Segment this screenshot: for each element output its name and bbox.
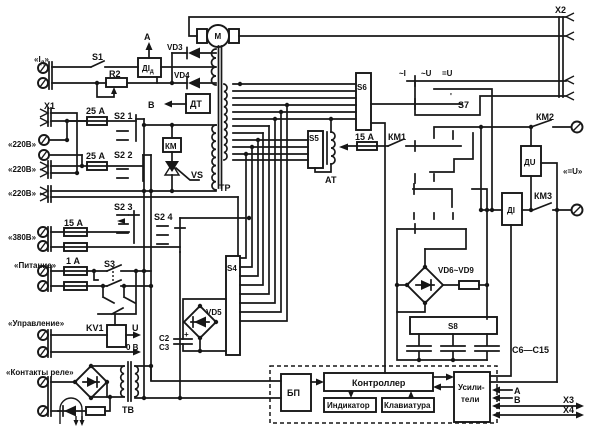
svg-text:S4: S4 <box>227 264 237 273</box>
wire 220V bus <box>51 190 216 192</box>
switch KM3 <box>529 191 571 212</box>
svg-text:S2 3: S2 3 <box>114 202 133 212</box>
svg-text:VD6~VD9: VD6~VD9 <box>438 266 474 275</box>
svg-text:S5: S5 <box>309 134 319 143</box>
transformer TV core <box>128 362 131 401</box>
resistor R2 <box>52 69 174 97</box>
controller dashed enclosure <box>270 366 497 423</box>
svg-text:+: + <box>184 330 189 339</box>
wire drop 2 to S4 <box>240 112 281 312</box>
wire tap 10 <box>233 146 308 148</box>
autotransformer AT <box>315 117 337 185</box>
wire tap 3 <box>233 97 356 99</box>
wire tap 1 <box>233 83 356 85</box>
switch S3 latch contact <box>94 271 136 325</box>
wire tap 8 <box>233 132 263 134</box>
fuse 1A lower <box>51 282 151 290</box>
indicator block <box>324 398 376 412</box>
motor M <box>197 25 239 47</box>
power supply BP <box>281 374 311 411</box>
wire KM1 down to controller <box>384 146 386 373</box>
fuse 25A lower <box>86 151 107 170</box>
svg-text:«Контакты реле»: «Контакты реле» <box>6 368 74 377</box>
wire bus left vertical 2 <box>150 155 152 380</box>
svg-text:X3: X3 <box>563 395 574 405</box>
switch S4 <box>226 256 240 355</box>
switch S2.4 <box>154 212 251 252</box>
wire tap 6 <box>233 118 356 120</box>
svg-text:15 А: 15 А <box>64 218 84 228</box>
svg-text:U: U <box>132 323 139 333</box>
connector X3 <box>492 395 584 410</box>
svg-text:X2: X2 <box>555 5 566 15</box>
optocoupler LED <box>51 398 86 426</box>
transformer TV primary <box>121 366 124 397</box>
contactor KM coil <box>163 127 181 152</box>
svg-text:': ' <box>450 92 452 101</box>
wire keyboard to controller arrow <box>410 397 412 398</box>
transformer TV secondary <box>135 366 138 397</box>
terminal «380V» <box>8 227 51 251</box>
wire drop 4 to S4 <box>240 126 269 294</box>
node 0V output arrow <box>51 343 141 356</box>
svg-text:S6: S6 <box>357 83 367 92</box>
node A input arrow <box>492 386 521 396</box>
svg-text:тели: тели <box>461 395 479 404</box>
svg-text:БП: БП <box>287 388 300 398</box>
switch S2.1 <box>114 111 144 141</box>
wire bus left vertical 1 <box>143 119 145 398</box>
resistor R3 <box>86 397 110 415</box>
svg-text:«220В»: «220В» <box>8 140 37 149</box>
svg-text:АТ: АТ <box>325 175 337 185</box>
wire amplifier to controller arrow <box>441 386 454 388</box>
wire drop 7 to S4 <box>240 147 252 267</box>
svg-text:~I: ~I <box>399 69 406 78</box>
svg-text:VD3: VD3 <box>167 43 183 52</box>
connector X4 <box>492 405 584 419</box>
switch S3 <box>92 259 153 288</box>
svg-text:S2 2: S2 2 <box>114 150 133 160</box>
svg-text:=U: =U <box>442 69 453 78</box>
svg-text:М: М <box>215 32 222 41</box>
voltage sensor DU <box>521 127 557 382</box>
transformer TP secondary winding <box>224 84 227 160</box>
diode VD4 <box>172 71 216 89</box>
svg-text:ТВ: ТВ <box>122 405 134 415</box>
wire motor right brush to X2 <box>239 35 566 37</box>
svg-text:«220В»: «220В» <box>8 189 37 198</box>
wire drop 8 to S4 <box>240 154 246 258</box>
wire bridge output vertical <box>486 210 488 319</box>
wire drop 6 to S4 <box>240 140 258 276</box>
wire controller to amplifier arrow <box>433 376 446 378</box>
wire tap 4 <box>233 104 356 106</box>
wire bridge top to TV primary <box>91 365 124 367</box>
terminal «Управление» <box>8 319 65 357</box>
wire 220V stub <box>51 196 238 198</box>
node U output arrow <box>126 323 141 339</box>
svg-text:B: B <box>148 100 155 110</box>
svg-text:S7: S7 <box>458 100 469 110</box>
terminal output plus <box>572 122 583 133</box>
current sensor DI <box>479 193 531 225</box>
svg-text:ДU: ДU <box>524 158 536 167</box>
svg-text:S8: S8 <box>448 322 458 331</box>
switch S6 <box>356 73 371 130</box>
terminal «220V» pair3 <box>8 186 51 202</box>
svg-text:S1: S1 <box>92 52 103 62</box>
terminal «Контакты реле» <box>6 368 74 416</box>
svg-text:C2: C2 <box>159 334 170 343</box>
capacitor bank C6-C15 <box>397 312 499 362</box>
switch S5 <box>308 131 323 168</box>
wire center tap from DId <box>161 66 216 68</box>
wire X1 row2 to fuse <box>51 120 87 122</box>
fuse 15A left lower <box>51 243 180 251</box>
resistor R4 <box>443 281 489 289</box>
svg-text:KV1: KV1 <box>86 323 104 333</box>
svg-text:«220В»: «220В» <box>8 165 37 174</box>
sensor DId U1 <box>138 58 161 77</box>
rectifier bridge VD1 <box>51 364 109 400</box>
svg-text:S2 1: S2 1 <box>114 111 133 121</box>
svg-text:ДI: ДI <box>507 206 515 215</box>
svg-text:A: A <box>144 32 151 42</box>
svg-text:15 А: 15 А <box>355 132 375 142</box>
wire AT wiper arrow <box>348 145 377 147</box>
svg-text:S2 4: S2 4 <box>154 212 173 222</box>
svg-text:Усили-: Усили- <box>458 383 485 392</box>
svg-text:ТР: ТР <box>219 183 231 193</box>
wire S4 feed vertical <box>237 197 239 256</box>
wire TV secondary top to BP <box>135 365 151 367</box>
fuse 15A left upper <box>51 218 129 236</box>
svg-text:B: B <box>514 395 521 405</box>
sensor DT <box>186 94 210 113</box>
transformer TP primary upper winding <box>212 49 217 85</box>
wire diode bracket <box>171 53 173 83</box>
svg-text:VS: VS <box>191 170 203 180</box>
svg-text:X1: X1 <box>44 101 55 111</box>
svg-text:25 А: 25 А <box>86 106 106 116</box>
wire tap 9 <box>233 139 308 141</box>
terminal output minus <box>572 205 583 216</box>
svg-text:Индикатор: Индикатор <box>327 401 370 410</box>
wire primary lower top tap <box>144 124 216 126</box>
terminal «220V» pair2 <box>8 161 143 178</box>
svg-text:1 А: 1 А <box>66 256 81 266</box>
svg-text:Клавиатура: Клавиатура <box>384 401 431 410</box>
wire output sense to amplifier <box>490 381 557 383</box>
controller block <box>324 373 433 391</box>
wire DI to amplifier <box>490 225 511 376</box>
svg-text:25 А: 25 А <box>86 151 106 161</box>
wire drop 3 to S4 <box>240 119 275 303</box>
fuse 15A right <box>355 132 388 150</box>
wire motor left brush to top bus <box>189 17 566 36</box>
wire bridge right down <box>106 382 108 397</box>
amplifier block <box>454 372 490 422</box>
svg-text:~U: ~U <box>421 69 432 78</box>
terminal «Питание» <box>14 261 57 291</box>
switch KM1 <box>388 132 461 146</box>
wire S6 output to S7 <box>371 103 462 105</box>
wire BP to controller arrow <box>311 381 316 383</box>
rectifier bridge VD6-VD9 <box>395 229 475 312</box>
switch S2.3 <box>114 202 139 243</box>
switch S7 <box>397 76 566 249</box>
terminal «Id» <box>34 55 52 89</box>
wire tap 7 <box>233 125 269 127</box>
wire tap 2 <box>233 90 356 92</box>
node X2 bus <box>559 17 563 97</box>
wire X1 row1 <box>51 113 77 173</box>
wire tap 5 <box>233 111 356 113</box>
switch KM2 <box>529 112 571 129</box>
wire S6 bottom to fuse <box>371 123 385 146</box>
svg-text:C6—C15: C6—C15 <box>512 345 549 355</box>
rectifier bridge VD5 <box>183 299 226 353</box>
wire drop 1 to S4 <box>240 105 287 321</box>
capacitor C2 C3 <box>159 330 192 352</box>
relay KV1 <box>51 323 126 347</box>
wire S2.4 down feed <box>179 252 181 398</box>
node B output arrow <box>148 100 186 110</box>
fuse 1A upper <box>51 256 151 275</box>
wire tap 11 <box>233 153 308 155</box>
wire bridge bottom bus <box>91 397 124 398</box>
transformer TP core <box>219 46 222 188</box>
wire TV secondary bottom to BP <box>135 397 281 398</box>
connector X2 <box>555 5 574 100</box>
svg-text:C3: C3 <box>159 343 170 352</box>
terminal «220V» pair1 <box>8 121 82 166</box>
label S7 block <box>399 69 453 78</box>
svg-text:Контроллер: Контроллер <box>352 378 406 388</box>
wire controller to indicator arrow <box>350 391 352 392</box>
node A output arrow <box>144 32 153 58</box>
diode VD3 <box>167 43 216 59</box>
svg-text:КМ: КМ <box>165 142 177 151</box>
svg-text:КМ1: КМ1 <box>388 132 406 142</box>
keyboard block <box>382 398 434 412</box>
svg-text:ДТ: ДТ <box>190 99 202 109</box>
switch S8 <box>410 317 497 334</box>
switch S2.2 <box>114 150 151 181</box>
node B input arrow <box>492 395 521 406</box>
connector X1 <box>40 101 55 126</box>
svg-text:«=U»: «=U» <box>563 167 583 176</box>
thyristor VS <box>165 152 203 193</box>
svg-text:«380В»: «380В» <box>8 233 37 242</box>
svg-text:X4: X4 <box>563 405 574 415</box>
svg-text:КМ3: КМ3 <box>534 191 552 201</box>
transformer TP primary lower winding <box>212 125 216 190</box>
fuse 25A upper <box>67 106 136 125</box>
wire tap 12 <box>233 159 308 161</box>
switch S1 <box>52 52 138 67</box>
wire drop 5 to S4 <box>240 133 263 285</box>
svg-text:«Управление»: «Управление» <box>8 319 65 328</box>
